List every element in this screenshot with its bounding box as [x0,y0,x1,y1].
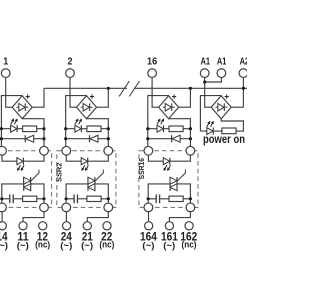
svg-text:A2: A2 [240,56,247,67]
break symbol slash 2 [129,81,139,96]
resistor input series (channel 1) [23,126,37,132]
output terminal 12 circle (nc) [39,222,47,230]
input terminal 2 circle [66,69,75,78]
diode reverse-polarity (channel 2) [90,135,99,142]
bridge rectifier (channel 16) with + mark [159,95,179,119]
sublabel (~) under 14 [0,240,8,250]
LED input indicator (channel 1) [11,125,18,132]
svg-text:A1: A1 [201,56,211,67]
triac (channel 2) [88,170,103,191]
bridge rectifier (channel 2) with + mark [77,95,97,119]
svg-text:2: 2 [68,56,73,68]
wire: triac lead left (channel 2) [66,184,88,203]
wire: left rail (channel 2) [65,95,67,147]
diode reverse-polarity (channel 16) [172,135,181,142]
svg-text:power on: power on [203,134,245,146]
wire: bridge DC+ apex horizontal (channel 1) [1,95,22,97]
output terminal label 11 [17,229,28,243]
terminal A1 (second) circle [217,69,226,78]
LED arrows (channel 2) [75,118,82,124]
triac (channel 16) [170,170,185,191]
wire: terminal 16 drop to bridge AC left corner [152,77,159,107]
label power on [203,134,245,146]
wire: opto LED branch (channel 16) [148,155,190,161]
wire: bridge DC+ apex horizontal (channel 16) [148,95,169,97]
wire: reverse diode row (channel 16) [148,138,191,140]
opto LED (channel 2) [81,158,88,165]
sublabel (~) under 161 [163,240,175,250]
wire: power-on LED row [200,130,222,132]
wire: A2 drop [242,77,244,107]
wire: LED indicator row (channel 1) [1,128,44,130]
resistor input series (channel 2) [87,126,101,132]
power-on LED arrows [207,121,214,127]
optocoupler pin circles top (channel 2) [62,146,113,155]
output terminal label 12 [37,229,48,243]
svg-text:(~): (~) [163,240,175,250]
wire: LED indicator row (channel 16) [148,128,191,130]
opto LED arrows (channel 16) [164,165,171,171]
resistor power-on series [222,128,236,134]
capacitor snubber (channel 1) [2,194,23,203]
svg-text:(~): (~) [60,240,72,250]
opto LED arrows (channel 1) [17,165,24,171]
output terminal label 24 [61,229,72,243]
terminal A1 (first) label [201,56,211,67]
junction dot A1 join [203,80,206,83]
diode reverse-polarity (channel 1) [25,135,34,142]
output terminal 14 circle [0,222,6,230]
svg-text:(~): (~) [17,240,29,250]
sublabel (~) under 164 [142,240,154,250]
opto LED (channel 1) [17,158,24,165]
wire: A1 second jog joining first A1 [205,77,222,82]
wire: SSR box to output terminal 11 (elbow) [23,212,44,222]
label SSR2 (rotated) [55,163,64,182]
output pin circles bottom of SSR box (channel 2) [62,203,113,212]
junction dots LED row (channel 16) [146,127,192,130]
resistor snubber (channel 16) [169,196,183,201]
wire: power-on bridge DC+ apex horizontal [200,95,221,97]
output terminal label 14 [0,229,8,243]
input terminal 16 circle [148,69,157,78]
junction dot bus / channel 16 riser [189,87,192,90]
wire: terminal 2 drop to bridge AC left corner [70,77,77,107]
terminal A1 (first) circle [200,69,209,78]
output terminal 164 circle [145,222,153,230]
svg-text:(~): (~) [0,240,8,250]
wire: SSR box to output terminal 14 [1,212,3,222]
sublabel (nc) under 162 [182,240,197,250]
wire: bridge DC- bottom corner to right rail (channel 16) [169,119,191,147]
wire: LED indicator row (channel 2) [66,128,109,130]
output terminal 22 circle (nc) [103,222,111,230]
output pin circles bottom of SSR box (channel 1) [0,203,48,212]
svg-text:16: 16 [147,56,157,68]
LED arrows (channel 16) [157,118,164,124]
svg-text:(nc): (nc) [35,240,50,250]
output terminal label 164 [140,229,157,243]
svg-text:SSR16: SSR16 [137,158,146,179]
output terminal 161 circle [165,222,173,230]
output pin circles bottom of SSR box (channel 16) [144,203,195,212]
junction dots LED row (channel 2) [64,127,110,130]
svg-text:SSR2: SSR2 [55,163,64,182]
wire: bridge DC- bottom corner to right rail (channel 2) [87,119,109,147]
dashed box SSR (channel 16) [139,151,198,208]
opto LED arrows (channel 2) [81,165,88,171]
dashed box SSR (channel 1) [0,151,52,208]
wire: triac lead right (channel 1) [31,184,44,203]
LED input indicator (channel 2) [75,125,82,132]
svg-text:A1: A1 [217,56,227,67]
capacitor snubber (channel 2) [66,194,87,203]
svg-text:(~): (~) [142,240,154,250]
terminal A2 label [240,56,250,67]
LED arrows (channel 1) [11,118,18,124]
svg-text:1: 1 [3,56,8,68]
wire: reverse diode row (channel 2) [66,138,109,140]
wire: snubber to right rail (channel 1) [37,198,44,200]
wire: left rail (channel 1) [0,95,2,147]
label SSR16 (rotated) [137,158,146,179]
junction dots LED row (channel 1) [0,127,46,130]
input terminal 16 label [147,56,157,68]
wire: SSR box to output terminal 164 [148,212,150,222]
wire: snubber to right rail (channel 2) [101,198,108,200]
input terminal 1 label [3,56,8,68]
junction dot bus / channel 2 riser [107,87,110,90]
wire: terminal 1 drop to bridge AC left corner [6,77,13,107]
LED input indicator (channel 16) [157,125,164,132]
junction dots diode row (channel 1) [0,137,46,140]
wire: power-on left rail [199,95,201,131]
wire: opto LED branch (channel 1) [2,155,44,161]
wire: bridge AC right corner to riser (channel 1) [32,88,44,107]
optocoupler pin circles top (channel 1) [0,146,48,155]
svg-text:(nc): (nc) [182,240,197,250]
wire: opto LED branch (channel 2) [66,155,108,161]
svg-text:(nc): (nc) [99,240,114,250]
input terminal 1 circle [1,69,10,78]
wire: left rail (channel 16) [147,95,149,147]
dashed box SSR (channel 2) [57,151,116,208]
output terminal 11 circle [19,222,27,230]
wire: bridge DC+ apex horizontal (channel 2) [66,95,87,97]
output terminal label 162 [180,229,197,243]
svg-text:(~): (~) [81,240,93,250]
wire: triac lead left (channel 16) [148,184,170,203]
wire: SSR box to output terminal 161 (elbow) [169,212,190,222]
wire: reverse diode row (channel 1) [1,138,44,140]
output terminal label 161 [161,229,178,243]
output terminal 24 circle [63,222,71,230]
wire: bridge AC right corner to riser (channel 2) [97,88,109,107]
bridge rectifier (channel 1) with + mark [12,95,32,119]
wire: triac lead right (channel 2) [95,184,108,203]
optocoupler pin circles top (channel 16) [144,146,195,155]
input terminal 2 label [68,56,73,68]
break symbol slash 1 [119,81,129,96]
junction dots snubber row (channel 16) [147,197,192,200]
opto LED (channel 16) [163,158,170,165]
output terminal label 22 [101,229,112,243]
wire: bridge AC right corner to riser (channel 16) [179,88,191,107]
output terminal 21 circle [83,222,91,230]
terminal A1 (second) label [217,56,227,67]
wire: A1 common bus left segment [44,87,127,89]
junction dots diode row (channel 16) [146,137,192,140]
wire: triac lead right (channel 16) [177,184,190,203]
output terminal 162 circle (nc) [185,222,193,230]
resistor snubber (channel 1) [23,196,37,201]
resistor input series (channel 16) [169,126,183,132]
wire: SSR box to output terminal 21 (elbow) [87,212,108,222]
sublabel (~) under 21 [81,240,93,250]
junction dots snubber row (channel 2) [65,197,110,200]
wire: SSR box to output terminal 24 [65,212,67,222]
sublabel (~) under 11 [17,240,29,250]
wire: A1 first drop to power-on bridge AC left corner [205,77,212,107]
wire: A1 common bus right segment [134,87,247,89]
wire: power-on bridge DC- bottom loop [221,119,243,131]
junction dots diode row (channel 2) [64,137,110,140]
sublabel (nc) under 12 [35,240,50,250]
wire: triac lead left (channel 1) [2,184,24,203]
triac (channel 1) [24,170,39,191]
wire: snubber to right rail (channel 16) [183,198,190,200]
sublabel (~) under 24 [60,240,72,250]
capacitor snubber (channel 16) [148,194,169,203]
junction dot A2 / bus [242,87,245,90]
terminal A2 circle [239,69,248,78]
LED power-on indicator [207,128,214,135]
sublabel (nc) under 22 [99,240,114,250]
wire: bridge DC- bottom corner to right rail (channel 1) [22,119,44,147]
wire: power-on bridge AC right corner to A2 [231,106,243,108]
junction dots snubber row (channel 1) [0,197,45,200]
bridge rectifier power-on with + mark [211,95,231,119]
resistor snubber (channel 2) [87,196,101,201]
output terminal label 21 [82,229,93,243]
